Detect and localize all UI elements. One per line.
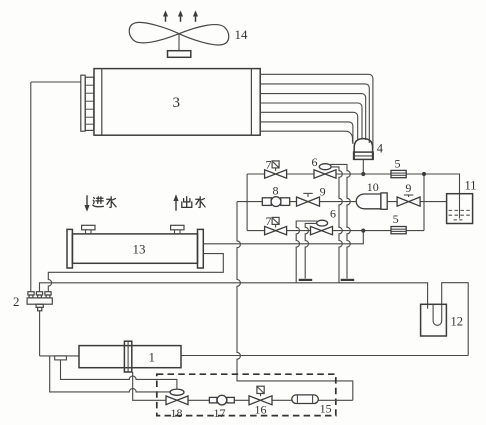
svg-text:14: 14 bbox=[235, 27, 249, 42]
svg-text:15: 15 bbox=[320, 402, 332, 416]
svg-text:13: 13 bbox=[133, 241, 146, 256]
svg-text:6: 6 bbox=[330, 207, 336, 221]
svg-text:7: 7 bbox=[266, 214, 272, 228]
svg-text:6: 6 bbox=[312, 155, 318, 169]
svg-text:17: 17 bbox=[214, 406, 226, 420]
svg-text:11: 11 bbox=[465, 179, 477, 193]
svg-text:4: 4 bbox=[377, 142, 384, 156]
svg-text:3: 3 bbox=[173, 95, 181, 111]
svg-text:10: 10 bbox=[367, 180, 379, 194]
svg-text:16: 16 bbox=[255, 403, 267, 417]
svg-text:5: 5 bbox=[395, 157, 401, 171]
svg-text:2: 2 bbox=[13, 294, 20, 309]
svg-text:12: 12 bbox=[451, 315, 464, 329]
svg-text:9: 9 bbox=[405, 181, 411, 195]
svg-text:9: 9 bbox=[320, 184, 326, 198]
svg-text:8: 8 bbox=[273, 183, 279, 197]
svg-text:1: 1 bbox=[149, 350, 156, 365]
svg-text:5: 5 bbox=[393, 212, 399, 226]
svg-text:18: 18 bbox=[171, 406, 183, 420]
svg-text:7: 7 bbox=[266, 157, 272, 171]
